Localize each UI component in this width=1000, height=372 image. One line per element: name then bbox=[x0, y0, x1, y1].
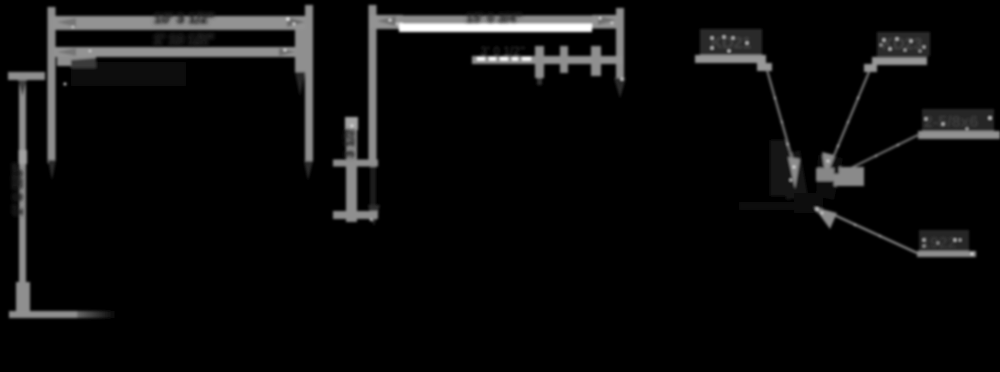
node tick mark 3 on sub band bbox=[591, 46, 601, 76]
wire vertical dimension line V2 far left bbox=[16, 74, 30, 314]
wire underline of label A bbox=[695, 55, 766, 63]
wire vertical extension line middle-left bbox=[368, 5, 380, 226]
svg-text:3 1/2: 3 1/2 bbox=[342, 129, 357, 158]
wire crossbar tick bottom bbox=[333, 211, 378, 221]
wire underline of label C bbox=[918, 131, 1000, 139]
wire vertical extension line V3 right of left group bbox=[304, 5, 313, 180]
svg-text:KD21: KD21 bbox=[711, 35, 752, 52]
svg-text:1' 8 5/8": 1' 8 5/8" bbox=[10, 163, 26, 216]
wire vertical extension line middle-right bbox=[614, 8, 626, 98]
wire extension column right end of band2 bbox=[295, 29, 305, 96]
svg-text:3' 0 1/2": 3' 0 1/2" bbox=[480, 44, 525, 58]
label D text bbox=[919, 230, 969, 252]
wire leader line from label C bbox=[851, 134, 920, 168]
wire leader line from label A bbox=[767, 70, 794, 165]
wire underline of label B bbox=[872, 57, 927, 65]
node arrowhead of leader B bbox=[822, 152, 834, 180]
label box B bbox=[877, 32, 930, 56]
wire underline of label D bbox=[917, 251, 976, 257]
svg-text:2-5/8x6: 2-5/8x6 bbox=[924, 114, 978, 131]
node tick mark 1 on sub band bbox=[535, 46, 544, 85]
svg-text:15' 0 3/4": 15' 0 3/4" bbox=[466, 10, 522, 25]
node dark object blob under band3 bbox=[71, 62, 186, 86]
wire bottom floor line H2 bbox=[9, 311, 117, 318]
node end blob of leader C bbox=[816, 167, 864, 186]
label C text bbox=[922, 109, 994, 131]
wire vertical extension line V1 left group bbox=[48, 7, 57, 180]
wire top dimension band middle group bbox=[369, 15, 624, 29]
wire leader line from label B bbox=[828, 72, 869, 170]
svg-text:10' 3 1/2": 10' 3 1/2" bbox=[154, 10, 215, 26]
wire top dimension band 1 left group bbox=[51, 16, 310, 30]
wire underline step of label B bbox=[864, 64, 877, 72]
wire white mask stripe under middle band bbox=[399, 23, 592, 32]
wire crossbar tick top bbox=[333, 160, 378, 167]
wire leader line to label D bbox=[830, 213, 917, 253]
node arrowhead of leader A bbox=[788, 157, 800, 189]
node arrowhead of leader D bbox=[814, 207, 837, 229]
label box A bbox=[700, 29, 762, 56]
wire short band 3 left group bbox=[57, 57, 96, 66]
svg-text:1' 10 1/2": 1' 10 1/2" bbox=[154, 31, 215, 47]
wire underline step of label A bbox=[757, 63, 772, 71]
node faint dark object blobs at convergence bbox=[739, 140, 843, 213]
node rotated dimension text far left bbox=[10, 163, 26, 216]
svg-text:KD23: KD23 bbox=[882, 36, 923, 53]
dimension texts with halo bbox=[10, 10, 523, 216]
wire dimension band 2 left group bbox=[54, 47, 297, 57]
wire sub dimension band middle group bbox=[472, 56, 623, 64]
node rotated dimension text middle small bbox=[342, 129, 357, 158]
wire small vertical dimension line middle-bottom bbox=[345, 117, 358, 222]
wire table top line H1 bbox=[8, 72, 45, 80]
node tick mark 2 on sub band bbox=[560, 46, 568, 73]
